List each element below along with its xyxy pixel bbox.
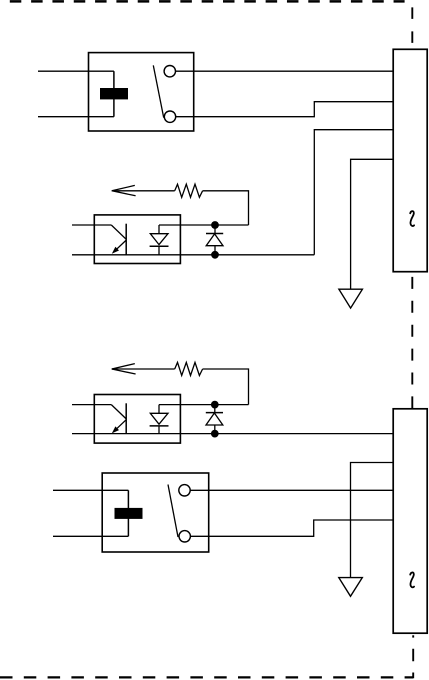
relay K1 coil rectangle xyxy=(100,88,128,99)
connector X1 block xyxy=(393,49,427,271)
wire U1 input left bottom rail xyxy=(72,254,314,256)
LED D1a inside U1 xyxy=(150,225,169,255)
transistor Q1 base bar xyxy=(125,224,127,255)
wire node A rail xyxy=(180,224,248,226)
connector X2 block xyxy=(393,409,427,633)
LED D2a inside U2 xyxy=(150,405,169,434)
wire U2 bottom rail to connector X2 pin1 xyxy=(72,433,393,435)
enclosure dashed border right segment B xyxy=(411,277,413,409)
relay K1 coil wire left top xyxy=(38,70,114,72)
transistor Q2 collector diagonal xyxy=(111,405,126,419)
enclosure dashed border bottom xyxy=(0,676,413,678)
relay K1 box xyxy=(89,53,194,131)
relay K2 box xyxy=(102,473,209,552)
wire U2 LED anode to node C xyxy=(159,404,180,406)
wire relay K1 top contact to connector X1 pin1 xyxy=(176,70,394,72)
transistor Q1 emitter with arrow xyxy=(112,240,126,254)
relay K2 coil vertical line xyxy=(127,490,129,536)
relay K2 contact circle top xyxy=(179,485,190,496)
connector X2 continuation squiggle xyxy=(410,572,414,587)
optocoupler U1 box xyxy=(94,215,180,264)
wire connector X1 pin4 to ground xyxy=(351,159,394,289)
relay K1 contact circle bottom xyxy=(164,111,175,122)
ground symbol G2 xyxy=(339,578,363,597)
relay K2 contact circle bottom xyxy=(179,531,190,542)
wire connector X2 pin2 to ground xyxy=(351,463,394,578)
wire U1 LED anode to node A xyxy=(159,224,180,226)
resistor R2 xyxy=(175,362,203,375)
arrow actuation indicator top xyxy=(112,185,175,195)
relay K1 switch blade xyxy=(153,65,163,117)
node D junction dot xyxy=(211,430,219,438)
diode D1 xyxy=(206,225,223,255)
resistor R1 xyxy=(175,184,203,197)
transistor Q2 emitter with arrow xyxy=(112,420,126,434)
enclosure dashed border right segment C xyxy=(412,635,414,637)
relay K2 switch blade xyxy=(168,485,178,538)
node A junction dot xyxy=(211,221,219,229)
relay K2 coil rectangle xyxy=(115,508,143,519)
relay K2 coil wire left bottom xyxy=(53,535,128,537)
relay K1 coil vertical line xyxy=(113,71,115,117)
transistor Q1 collector diagonal xyxy=(111,225,126,239)
optocoupler U2 box xyxy=(94,395,180,444)
relay K1 coil wire left bottom xyxy=(38,116,114,118)
enclosure dashed border right segment A xyxy=(411,7,413,49)
wire U1 input left top xyxy=(72,224,111,226)
enclosure dashed border top xyxy=(10,0,405,3)
relay K1 contact circle top xyxy=(164,66,175,77)
wire relay K2 top contact to connector X2 pin3 xyxy=(190,489,393,491)
wire resistor R2 to node C xyxy=(203,369,249,405)
arrow actuation indicator bottom xyxy=(112,364,175,374)
wire relay K1 bottom contact to connector X1 pin2 xyxy=(176,102,394,117)
diode D2 xyxy=(206,405,223,434)
wire U1 bottom rail to connector X1 pin3 xyxy=(314,130,393,255)
relay K2 coil wire left top xyxy=(53,489,128,491)
wire resistor R1 to node A xyxy=(203,191,249,225)
wire U2 input left top xyxy=(72,404,111,406)
wire relay K2 bottom contact to connector X2 pin4 xyxy=(190,520,393,536)
node B junction dot xyxy=(211,251,219,259)
transistor Q2 base bar xyxy=(125,403,127,434)
connector X1 continuation squiggle xyxy=(410,211,414,226)
wire node C rail xyxy=(180,404,248,406)
ground symbol G1 xyxy=(339,289,363,308)
node C junction dot xyxy=(211,401,219,409)
